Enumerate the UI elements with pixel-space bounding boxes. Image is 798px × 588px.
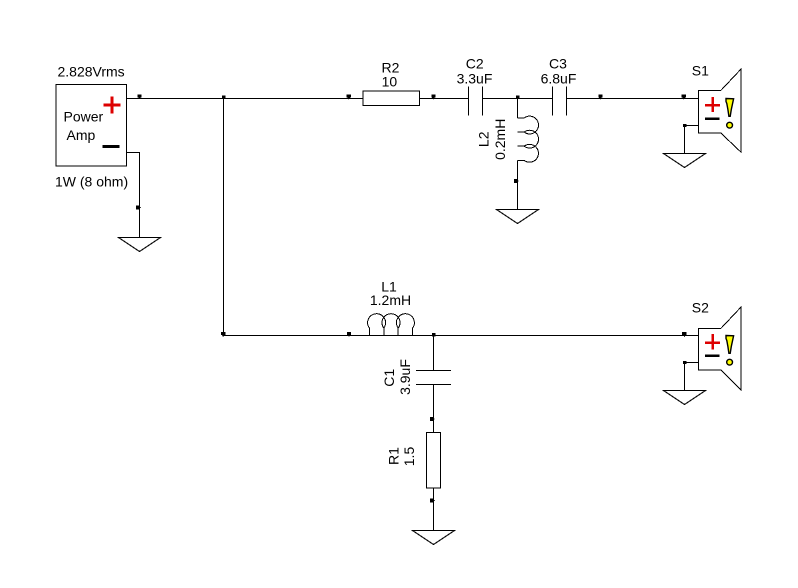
svg-text:1.5: 1.5 bbox=[401, 447, 417, 467]
pin arrow before L1 bbox=[347, 332, 351, 337]
wire source minus to ground bbox=[127, 153, 140, 238]
ground under S2 bbox=[664, 391, 706, 405]
pin arrow at branch corner bbox=[221, 332, 225, 337]
S2 warning bolt bbox=[726, 336, 734, 354]
ground under S1 bbox=[664, 154, 706, 168]
svg-text:2.828Vrms: 2.828Vrms bbox=[58, 63, 125, 79]
svg-text:1W (8 ohm): 1W (8 ohm) bbox=[55, 174, 128, 190]
pin arrow before S2 bbox=[682, 332, 686, 337]
V1 minus sign bbox=[103, 145, 120, 148]
svg-text:3.3uF: 3.3uF bbox=[457, 70, 493, 86]
pin arrow before R2 bbox=[347, 95, 351, 100]
resistor R2 bbox=[363, 60, 420, 106]
svg-text:Power: Power bbox=[64, 109, 104, 125]
wire S2 minus to ground bbox=[685, 363, 699, 391]
voltage source V1 Power Amp box bbox=[55, 63, 128, 189]
wire vertical branch to low-pass bbox=[223, 99, 225, 336]
wire top main A bbox=[127, 98, 469, 100]
junction at S2 minus corner bbox=[683, 361, 687, 364]
pin arrow on source ground wire bbox=[136, 206, 141, 210]
resistor R1 bbox=[386, 432, 441, 488]
pin arrow on wire at source output bbox=[137, 95, 141, 100]
V1 plus sign bbox=[104, 97, 121, 114]
wire L2 top bbox=[517, 99, 519, 119]
svg-text:1.2mH: 1.2mH bbox=[370, 292, 411, 308]
S2 minus sign bbox=[705, 354, 720, 357]
S1 warning bolt bbox=[726, 99, 734, 117]
S2 warning dot bbox=[727, 359, 733, 365]
junction at L2 node bbox=[516, 96, 520, 99]
wire C1 top bbox=[433, 336, 435, 371]
svg-text:C3: C3 bbox=[549, 56, 567, 72]
inductor L1 bbox=[368, 279, 415, 336]
wire S1 minus to ground bbox=[685, 126, 699, 154]
S1 minus sign bbox=[705, 117, 720, 120]
ground under L2 bbox=[497, 210, 539, 224]
svg-text:3.9uF: 3.9uF bbox=[397, 359, 413, 395]
wire top main C (C3 to S1) bbox=[567, 98, 699, 100]
wire top main B (C2 to C3) bbox=[483, 98, 553, 100]
ground under R1 bbox=[413, 531, 455, 545]
pin arrow after C3 bbox=[598, 95, 602, 100]
junction at branch node bbox=[222, 96, 226, 99]
pin arrow on L2 ground wire bbox=[514, 179, 519, 183]
svg-text:C2: C2 bbox=[466, 56, 484, 72]
svg-text:Amp: Amp bbox=[67, 127, 96, 143]
S1 warning dot bbox=[727, 122, 733, 128]
pin arrow on C1-R1 wire bbox=[430, 417, 435, 421]
speaker S1 bbox=[692, 62, 741, 152]
junction at S1 minus corner bbox=[683, 124, 687, 127]
svg-text:6.8uF: 6.8uF bbox=[541, 70, 577, 86]
wire C1 to R1 bbox=[433, 384, 435, 432]
svg-text:S1: S1 bbox=[692, 62, 709, 78]
pin arrow on R1 ground wire bbox=[430, 498, 435, 502]
svg-text:R1: R1 bbox=[386, 447, 402, 465]
wire R1 to ground bbox=[433, 488, 435, 531]
speaker S2 bbox=[692, 300, 741, 390]
ground under source bbox=[119, 238, 161, 252]
pin arrow after R2 bbox=[431, 95, 435, 100]
inductor L2 bbox=[476, 116, 539, 162]
junction at C1 node bbox=[432, 333, 436, 336]
svg-text:10: 10 bbox=[382, 74, 398, 90]
S2 plus sign bbox=[705, 334, 720, 349]
svg-text:L2: L2 bbox=[476, 131, 492, 147]
svg-text:S2: S2 bbox=[692, 300, 709, 316]
capacitor C3 bbox=[541, 56, 577, 116]
svg-text:0.2mH: 0.2mH bbox=[492, 119, 508, 160]
wire L2 bottom to ground bbox=[517, 160, 519, 209]
wire bottom main (branch to S2) bbox=[224, 335, 699, 337]
capacitor C2 bbox=[457, 56, 493, 116]
capacitor C1 bbox=[381, 359, 451, 395]
S1 plus sign bbox=[705, 97, 720, 112]
svg-text:C1: C1 bbox=[381, 369, 397, 387]
pin arrow before S1 bbox=[682, 95, 686, 100]
